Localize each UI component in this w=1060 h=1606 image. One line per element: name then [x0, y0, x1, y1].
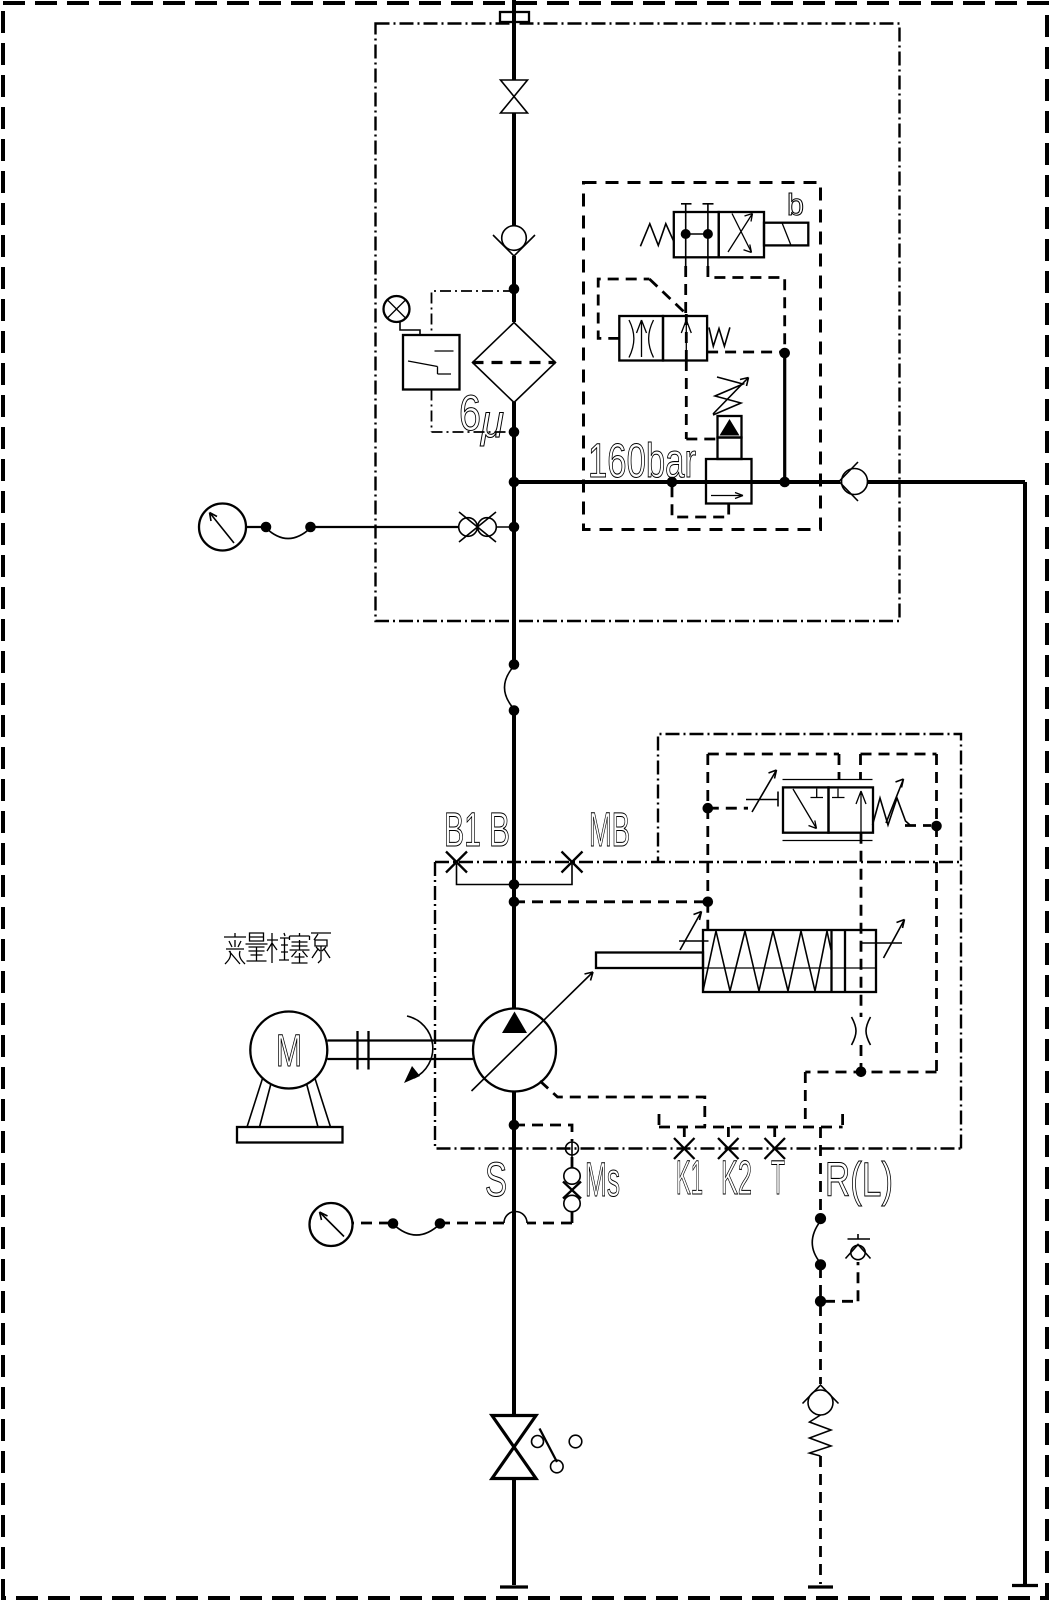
svg-text:6: 6 — [459, 385, 481, 441]
svg-text:K1: K1 — [676, 1152, 703, 1205]
svg-text:R(L): R(L) — [825, 1154, 893, 1207]
svg-text:S: S — [485, 1154, 507, 1207]
svg-text:B: B — [489, 804, 510, 857]
svg-text:MB: MB — [589, 804, 630, 857]
svg-text:T: T — [771, 1152, 785, 1205]
svg-text:B1: B1 — [444, 804, 481, 857]
svg-text:b: b — [787, 187, 804, 222]
svg-text:μ: μ — [480, 395, 504, 447]
svg-text:Ms: Ms — [585, 1154, 620, 1207]
svg-text:M: M — [276, 1025, 302, 1076]
svg-text:K2: K2 — [721, 1152, 752, 1205]
svg-text:160bar: 160bar — [588, 435, 696, 488]
